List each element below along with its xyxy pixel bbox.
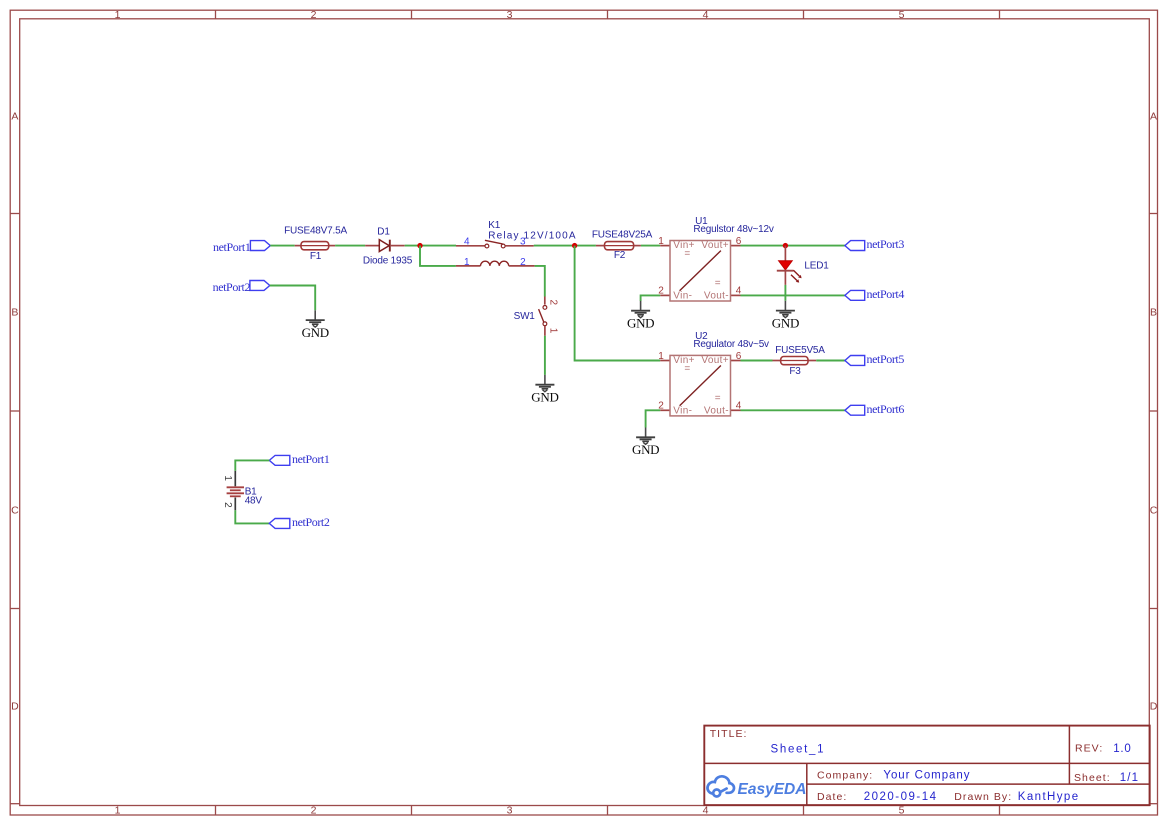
svg-text:REV:: REV: (1075, 743, 1103, 755)
svg-text:=: = (715, 393, 721, 404)
svg-text:1: 1 (658, 236, 664, 247)
svg-text:GND: GND (772, 315, 799, 330)
netPort3 port (845, 237, 904, 251)
netPort4 port (845, 287, 904, 301)
svg-text:4: 4 (703, 9, 709, 21)
regulator U1 (658, 216, 774, 301)
svg-text:Company:: Company: (817, 770, 873, 782)
wire U2 pin6 to F3 (741, 360, 773, 362)
relay K1 (456, 220, 577, 268)
netPort1 top left port (213, 240, 270, 254)
svg-text:1: 1 (222, 475, 233, 481)
svg-text:FUSE48V25A: FUSE48V25A (592, 230, 653, 241)
junction node A (417, 243, 422, 248)
svg-text:C: C (1150, 505, 1158, 517)
svg-text:Your Company: Your Company (883, 770, 970, 782)
svg-text:D: D (1150, 701, 1158, 713)
svg-text:Vin-: Vin- (673, 290, 692, 301)
svg-text:=: = (684, 248, 690, 259)
svg-text:Vout-: Vout- (704, 290, 729, 301)
svg-text:B: B (11, 307, 18, 319)
wire F2 to U1 (641, 245, 660, 247)
svg-text:GND: GND (632, 442, 659, 457)
svg-text:1: 1 (547, 328, 558, 334)
wire netPort1 to F1 (270, 245, 294, 247)
svg-text:Relay 12V/100A: Relay 12V/100A (488, 230, 576, 241)
svg-text:1: 1 (658, 351, 664, 362)
svg-text:GND: GND (302, 325, 329, 340)
svg-text:Date:: Date: (817, 791, 847, 803)
svg-text:4: 4 (464, 237, 470, 248)
ground under LED1 (772, 301, 799, 331)
junction node B (572, 243, 577, 248)
svg-text:Regulstor 48v~12v: Regulstor 48v~12v (693, 224, 773, 235)
svg-text:netPort1: netPort1 (292, 452, 330, 466)
svg-text:Sheet:: Sheet: (1074, 772, 1111, 784)
svg-text:4: 4 (703, 805, 709, 817)
svg-text:5: 5 (899, 9, 905, 21)
svg-text:KantHype: KantHype (1018, 791, 1080, 803)
svg-text:Vout+: Vout+ (701, 240, 729, 251)
netPort5 port (845, 352, 904, 366)
ruler row letters right (1150, 111, 1158, 713)
svg-text:Diode 1935: Diode 1935 (363, 255, 413, 266)
wire D1 to relay (405, 245, 456, 247)
netPort6 port (845, 402, 904, 416)
ground under U2 pin2 (632, 428, 659, 458)
wire U1 pin2 to ground (641, 295, 661, 301)
svg-text:GND: GND (531, 390, 558, 405)
svg-text:netPort4: netPort4 (867, 287, 905, 301)
svg-text:2: 2 (222, 502, 233, 508)
svg-text:2: 2 (520, 257, 526, 268)
svg-text:=: = (715, 278, 721, 289)
wire relay pin3 to J2 and F2 (534, 245, 596, 247)
wire branch down to relay coil (420, 246, 456, 266)
svg-text:A: A (1150, 111, 1157, 123)
svg-text:netPort3: netPort3 (867, 237, 905, 251)
svg-text:1: 1 (115, 805, 121, 817)
wire F1 to D1 (335, 245, 365, 247)
fuse F3 (773, 345, 826, 377)
junction node C (783, 243, 788, 248)
ruler column numbers bottom (115, 805, 905, 817)
ruler column numbers top (115, 9, 905, 21)
svg-text:F1: F1 (310, 251, 322, 262)
wire U2 pin2 to ground (646, 410, 661, 427)
wire F3 to netPort5 (816, 360, 845, 362)
wire netPort1 to battery (235, 460, 269, 471)
svg-text:F2: F2 (614, 250, 626, 261)
svg-text:netPort6: netPort6 (867, 402, 905, 416)
svg-text:F3: F3 (789, 366, 801, 377)
wire netPort2 to ground (270, 286, 315, 311)
fuse F1 (284, 226, 347, 262)
netPort1 bottom port (269, 452, 330, 466)
svg-text:=: = (684, 363, 690, 374)
fuse F2 (592, 230, 653, 261)
svg-text:Vout-: Vout- (704, 405, 729, 416)
svg-text:3: 3 (507, 9, 513, 21)
svg-text:1: 1 (115, 9, 121, 21)
LED LED1 (777, 246, 829, 285)
svg-text:2020-09-14: 2020-09-14 (864, 791, 938, 803)
svg-text:48V: 48V (245, 496, 263, 507)
svg-text:GND: GND (627, 316, 654, 331)
ground under netPort2 (302, 310, 329, 340)
wire LED to ground through netPort4 rail (784, 285, 786, 301)
svg-text:B: B (1150, 307, 1157, 319)
svg-text:3: 3 (507, 805, 513, 817)
wire U1 pin6 to netPort3 (741, 245, 845, 247)
diode D1 (363, 226, 413, 266)
wire J2 down to U2 pin1 (575, 246, 661, 361)
svg-text:D1: D1 (377, 226, 390, 237)
svg-text:netPort1: netPort1 (213, 240, 251, 254)
wire U1 pin4 to netPort4 (741, 294, 845, 296)
svg-text:Drawn By:: Drawn By: (954, 791, 1012, 803)
svg-text:netPort2: netPort2 (292, 515, 330, 529)
EasyEDA logo cloud (707, 776, 734, 796)
svg-text:Sheet_1: Sheet_1 (771, 744, 826, 756)
svg-text:FUSE48V7.5A: FUSE48V7.5A (284, 226, 347, 237)
regulator U2 (658, 331, 769, 416)
ground under U1 pin2 (627, 301, 654, 331)
svg-text:netPort2: netPort2 (213, 280, 251, 294)
svg-text:1: 1 (464, 257, 470, 268)
svg-text:Vin-: Vin- (673, 405, 692, 416)
title block outline (704, 726, 1149, 806)
svg-text:C: C (11, 505, 19, 517)
svg-text:SW1: SW1 (514, 311, 536, 322)
wire U2 pin4 to netPort6 (741, 409, 845, 411)
svg-text:EasyEDA: EasyEDA (738, 781, 807, 798)
wire relay pin2 down to SW1 (535, 266, 545, 297)
svg-text:Regulator 48v~5v: Regulator 48v~5v (693, 339, 769, 350)
netPort2 bottom port (269, 515, 330, 529)
battery B1 (222, 471, 262, 510)
svg-text:LED1: LED1 (804, 260, 829, 271)
svg-text:5: 5 (899, 805, 905, 817)
svg-text:1.0: 1.0 (1113, 743, 1131, 755)
svg-text:D: D (11, 701, 19, 713)
svg-text:netPort5: netPort5 (867, 352, 905, 366)
wire SW1 to ground (544, 336, 546, 375)
wire battery to netPort2 (235, 510, 269, 523)
svg-text:TITLE:: TITLE: (710, 728, 748, 740)
svg-text:A: A (11, 111, 18, 123)
ruler row letters left (11, 111, 19, 713)
svg-text:2: 2 (547, 300, 558, 306)
svg-text:2: 2 (311, 9, 317, 21)
svg-text:2: 2 (311, 805, 317, 817)
netPort2 top left port (213, 280, 270, 294)
ground under SW1 (531, 375, 558, 405)
switch SW1 (514, 297, 559, 336)
svg-text:Vout+: Vout+ (701, 355, 729, 366)
svg-text:FUSE5V5A: FUSE5V5A (775, 345, 825, 356)
svg-text:1/1: 1/1 (1120, 772, 1140, 784)
